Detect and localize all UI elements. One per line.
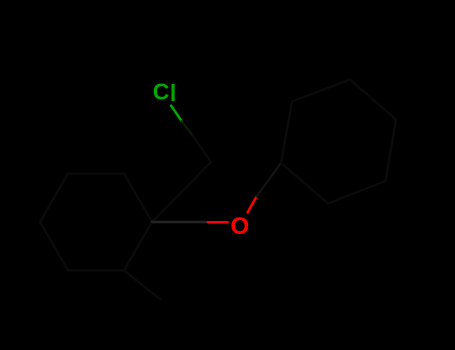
CH2-C3 bond — [152, 162, 211, 222]
right benzene ring — [281, 80, 396, 204]
Cl bond dark tail to CH2 vertex — [193, 136, 211, 162]
svg-text:O: O — [230, 213, 249, 240]
Cl bond green half — [171, 106, 182, 122]
svg-text:l: l — [170, 80, 176, 106]
svg-text:C: C — [153, 78, 170, 104]
O-phenyl bond gray half — [257, 163, 281, 196]
Cl bond gray half — [182, 121, 193, 136]
methyl stub — [124, 271, 160, 300]
C3-O bond red half — [208, 221, 228, 224]
C3-O bond gray half — [152, 221, 208, 223]
left cyclohexane ring — [40, 174, 152, 271]
O-phenyl bond red half — [248, 196, 257, 212]
